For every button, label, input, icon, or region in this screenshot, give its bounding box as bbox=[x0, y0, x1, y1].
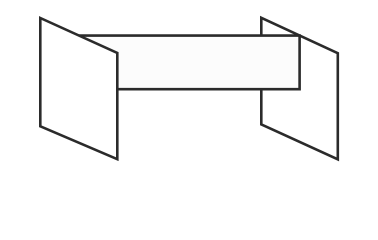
left side panel (parallelogram) bbox=[40, 18, 117, 159]
table top slab (rectangle) bbox=[60, 36, 300, 90]
right side panel (parallelogram) bbox=[261, 18, 338, 160]
